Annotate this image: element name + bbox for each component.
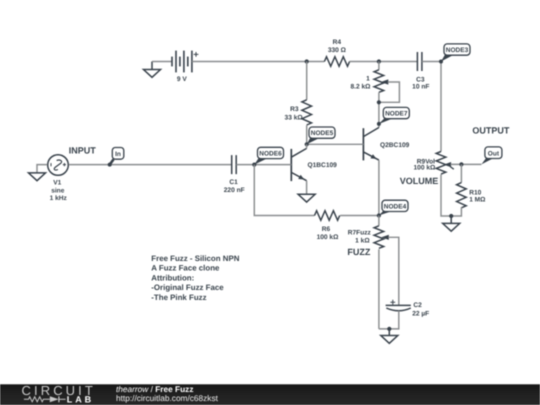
svg-text:OUTPUT: OUTPUT bbox=[472, 126, 510, 136]
transistor Q2 BC109 bbox=[363, 128, 409, 161]
ground GND1 (battery negative) bbox=[144, 62, 161, 78]
wire C3 to NODE3 corner bbox=[422, 62, 441, 152]
capacitor C2 (polarized) bbox=[386, 300, 430, 318]
svg-text:1 MΩ: 1 MΩ bbox=[469, 197, 486, 204]
node flag NODE4 bbox=[379, 200, 408, 215]
svg-text:INPUT: INPUT bbox=[69, 146, 97, 156]
svg-text:Q2BC109: Q2BC109 bbox=[380, 142, 410, 149]
wire Q2 base from NODE5 junction bbox=[307, 143, 364, 145]
svg-text:Free Fuzz - Silicon NPN: Free Fuzz - Silicon NPN bbox=[151, 254, 239, 263]
potentiometer 1 (8.2 k) bbox=[351, 70, 389, 93]
svg-text:-The Pink Fuzz: -The Pink Fuzz bbox=[151, 293, 206, 302]
svg-text:1 kΩ: 1 kΩ bbox=[355, 237, 370, 244]
resistor R10 bbox=[457, 183, 487, 208]
svg-text:330 Ω: 330 Ω bbox=[328, 47, 347, 54]
svg-text:R7Fuzz: R7Fuzz bbox=[348, 230, 372, 237]
junction on rail at pot branch bbox=[377, 59, 381, 63]
svg-text:A Fuzz Face clone: A Fuzz Face clone bbox=[151, 264, 220, 273]
resistor R6 bbox=[315, 211, 340, 241]
wire R4 to C3 bbox=[349, 61, 417, 63]
junction on rail at R3 branch bbox=[305, 59, 309, 63]
wire NODE6 down to R6 rail bbox=[254, 165, 314, 216]
voltage source V1 bbox=[48, 155, 69, 202]
wire V1 minus to ground bbox=[37, 165, 47, 173]
svg-text:FUZZ: FUZZ bbox=[347, 247, 370, 257]
ground GND2 (Q1 emitter) bbox=[298, 194, 315, 202]
junction pot bottom / wiper bbox=[377, 100, 381, 104]
wire pot wiper loop to bottom terminal bbox=[379, 82, 400, 102]
wire battery negative to ground bbox=[152, 61, 172, 63]
svg-text:Attribution:: Attribution: bbox=[151, 273, 194, 282]
svg-text:LAB: LAB bbox=[67, 395, 94, 405]
node flag NODE5 bbox=[305, 127, 335, 146]
junction fuzz ground bbox=[387, 327, 391, 331]
node flag In bbox=[108, 148, 124, 167]
svg-text:1 kHz: 1 kHz bbox=[50, 195, 68, 202]
svg-text:R4: R4 bbox=[333, 39, 342, 46]
node flag Out bbox=[481, 147, 502, 165]
wire Q1 emitter down bbox=[306, 181, 308, 195]
svg-text:NODE5: NODE5 bbox=[311, 130, 334, 137]
svg-text:V1: V1 bbox=[53, 180, 61, 187]
ground GND3 (input source) bbox=[29, 173, 46, 181]
ground GND5 (volume divider) bbox=[443, 216, 460, 231]
wire Q2 emitter down to NODE4 bbox=[378, 160, 380, 215]
wire R9Vol wiper to Out bbox=[451, 163, 482, 165]
svg-text:sine: sine bbox=[51, 188, 65, 195]
svg-text:1: 1 bbox=[366, 76, 370, 83]
svg-text:R6: R6 bbox=[322, 226, 331, 233]
node flag NODE7 bbox=[377, 107, 409, 126]
svg-text:Q1BC109: Q1BC109 bbox=[308, 162, 338, 169]
ground GND4 (fuzz) bbox=[381, 329, 398, 343]
svg-text:C3: C3 bbox=[416, 76, 425, 83]
svg-text:Out: Out bbox=[488, 150, 500, 157]
wire rail down to potentiometer 1 bbox=[378, 62, 380, 70]
junction NODE6 bbox=[252, 163, 256, 167]
svg-text:NODE4: NODE4 bbox=[384, 203, 407, 210]
potentiometer R9Vol bbox=[414, 152, 454, 175]
node flag NODE6 bbox=[254, 147, 283, 164]
wire pot bottom bbox=[378, 92, 380, 127]
wire rail down to R3 bbox=[306, 62, 308, 100]
capacitor C3 bbox=[412, 52, 429, 91]
footer CircuitLab logo bbox=[22, 383, 96, 404]
svg-text:VOLUME: VOLUME bbox=[400, 176, 439, 186]
wire R7Fuzz bottom to ground rail bbox=[378, 249, 380, 329]
wire C1 to Q1 base bbox=[236, 164, 291, 166]
resistor R3 bbox=[285, 100, 312, 125]
svg-text:22 µF: 22 µF bbox=[412, 311, 429, 318]
svg-text:100 kΩ: 100 kΩ bbox=[317, 234, 340, 241]
svg-text:100 kΩ: 100 kΩ bbox=[414, 165, 437, 172]
wire C2 bottom to fuzz ground rail bbox=[379, 311, 399, 329]
svg-text:http://circuitlab.com/c68zkst: http://circuitlab.com/c68zkst bbox=[116, 393, 219, 403]
svg-text:In: In bbox=[115, 151, 121, 158]
svg-text:8.2 kΩ: 8.2 kΩ bbox=[351, 84, 372, 91]
wire R10 top bbox=[460, 164, 462, 182]
svg-text:9 V: 9 V bbox=[177, 76, 187, 83]
svg-text:NODE7: NODE7 bbox=[385, 111, 408, 118]
battery plus sign bbox=[194, 52, 199, 57]
wire R3 to NODE5 junction bbox=[306, 125, 308, 144]
node flag NODE3 bbox=[439, 44, 470, 64]
footer attribution text bbox=[116, 384, 219, 403]
battery V2 9V bbox=[172, 51, 192, 73]
svg-text:NODE3: NODE3 bbox=[446, 47, 469, 54]
junction NODE4 bbox=[377, 213, 381, 217]
junction volume ground bbox=[449, 214, 453, 218]
footer bar bbox=[0, 0, 1, 1]
svg-text:10 nF: 10 nF bbox=[412, 84, 429, 91]
potentiometer R7Fuzz bbox=[348, 216, 389, 249]
wire R7Fuzz wiper to C2 bbox=[388, 237, 399, 305]
resistor R4 bbox=[324, 39, 349, 66]
wire R6 to NODE4 junction bbox=[340, 215, 379, 217]
svg-text:33 kΩ: 33 kΩ bbox=[285, 115, 304, 122]
wire top rail battery to R4 bbox=[192, 61, 325, 63]
wire R10 bottom bbox=[441, 175, 461, 217]
svg-text:NODE6: NODE6 bbox=[259, 151, 282, 158]
capacitor C1 bbox=[224, 155, 245, 194]
svg-text:C1: C1 bbox=[229, 179, 238, 186]
wire V1 to C1 bbox=[69, 164, 232, 166]
attribution text block bbox=[151, 254, 239, 302]
svg-text:-Original Fuzz Face: -Original Fuzz Face bbox=[151, 283, 224, 292]
svg-text:C2: C2 bbox=[413, 302, 422, 309]
transistor Q1 BC109 bbox=[291, 144, 337, 181]
junction R10 top bbox=[459, 162, 463, 166]
svg-text:R3: R3 bbox=[290, 106, 299, 113]
svg-text:220 nF: 220 nF bbox=[224, 187, 245, 194]
